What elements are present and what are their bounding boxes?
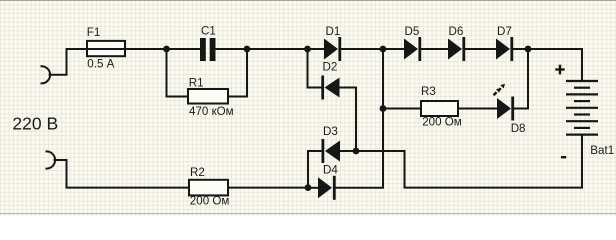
wire diode D2 to node F [340,88,357,152]
svg-text:D5: D5 [405,25,420,38]
svg-text:R1: R1 [189,77,204,90]
wire diode D7 to node E and battery plus [513,49,582,81]
node F junction [353,148,360,155]
svg-text:C1: C1 [201,24,216,37]
svg-text:Bat1: Bat1 [590,144,614,157]
diode D3 [322,139,341,163]
resistor R3 [421,101,458,116]
label D8 [511,122,526,135]
svg-text:D7: D7 [497,25,512,38]
label D4 [323,164,338,177]
svg-text:200 Ом: 200 Ом [422,116,462,129]
wire resistor R1 to node B [228,49,247,97]
sheet bottom border [0,213,616,215]
node C junction [304,46,311,53]
wire terminal X1 to fuse F1 [50,49,87,75]
svg-text:220 В: 220 В [12,114,58,134]
sheet top border [0,0,616,2]
svg-text:F1: F1 [87,26,101,39]
battery Bat1 [566,81,598,135]
fuse F1 [87,41,125,56]
diode D1 [324,37,341,61]
svg-text:470 кОм: 470 кОм [189,105,234,118]
resistor R1 [188,89,228,104]
label D5 [405,25,420,38]
svg-text:D3: D3 [323,125,338,138]
svg-text:D8: D8 [511,122,526,135]
label Bat1 [590,144,614,157]
battery plus sign [555,65,564,75]
node B junction [244,46,251,53]
diode D4 [318,176,336,200]
wire diode D6 to diode D7 [465,48,496,50]
wire diode D3 to node G [308,151,322,188]
wire diode D4 up to node D [336,49,383,188]
wire node G to diode D4 [308,187,318,189]
value 0.5 A [87,57,114,70]
resistor R2 [189,180,228,196]
wire node A down to resistor R1 [167,49,189,97]
svg-text:R3: R3 [421,85,436,98]
wire node A to capacitor C1 [167,48,201,50]
svg-text:D6: D6 [449,25,464,38]
svg-text:D2: D2 [323,60,338,73]
label R2 [190,166,205,179]
label D7 [497,25,512,38]
diode D5 [404,37,421,61]
value 200 Ohm R3 [422,116,462,129]
wire fuse F1 to node A [125,48,167,50]
label D1 [326,25,341,38]
wire resistor R2 to node G [228,187,308,189]
label C1 [201,24,216,37]
wire diode D5 to diode D6 [421,48,448,50]
svg-text:D1: D1 [326,25,341,38]
svg-text:R2: R2 [190,166,205,179]
capacitor C1 [200,38,216,61]
terminal X1 top (220V input) [42,66,51,83]
wire node B to node C [247,48,324,50]
battery minus sign [561,156,566,158]
node G junction [305,184,312,191]
diode D6 [448,37,465,61]
svg-text:200 Ом: 200 Ом [190,195,230,208]
label D6 [449,25,464,38]
wire capacitor C1 to node B [216,48,248,50]
value 470 kOhm [189,105,234,118]
diode D7 [496,37,513,61]
svg-text:D4: D4 [323,164,338,177]
terminal X2 bottom (220V input) [47,151,56,168]
label R1 [189,77,204,90]
LED D8 [494,84,514,121]
label 220 V source [12,114,58,134]
wire LED D8 up to node E [514,49,528,109]
label F1 [87,26,101,39]
value 200 Ohm R2 [190,195,230,208]
diode D2 [321,76,339,100]
wire node F to battery minus [356,135,582,188]
node E junction [525,46,532,53]
label D3 [323,125,338,138]
label D2 [323,60,338,73]
wire diode D3 to node F [340,150,356,152]
wire terminal X2 to resistor R2 [55,160,189,188]
label R3 [421,85,436,98]
svg-text:0.5 А: 0.5 А [87,57,114,70]
node D top junction [380,46,387,53]
wire node D to resistor R3 [383,108,421,110]
node D mid junction [380,105,387,112]
wire diode D1 to node D [341,48,404,50]
node A junction [163,46,170,53]
wire node C down to diode D2 [308,49,322,88]
wire resistor R3 to LED D8 [458,108,497,110]
